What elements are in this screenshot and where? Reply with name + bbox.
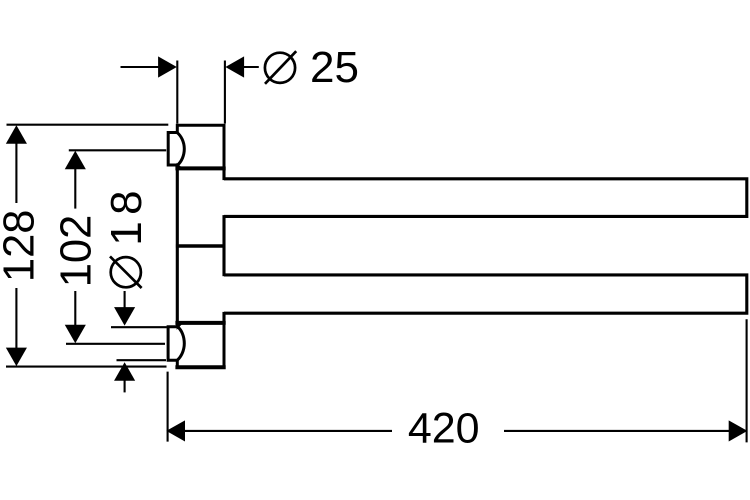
svg-text:8: 8 (102, 190, 151, 214)
dimension 102: top extension line (69, 149, 166, 151)
lower towel bar (224, 275, 747, 313)
bottom cap notch (177, 322, 184, 330)
bottom cap (wall rosette, side view) (168, 327, 184, 361)
dimension Ø25: left arrow (121, 56, 177, 77)
dimension Ø25: label diameter symbol (265, 51, 296, 84)
dimension Ø18: bottom extension line (117, 359, 167, 361)
dimension 420: left extension line (167, 372, 169, 442)
dimension 420: right arrow (504, 420, 747, 441)
svg-text:420: 420 (408, 405, 480, 453)
dimension Ø25: right arrow (225, 56, 258, 77)
dimension 128: top extension line (7, 124, 169, 126)
svg-text:128: 128 (0, 210, 43, 283)
svg-text:102: 102 (52, 215, 100, 288)
top cap (wall rosette, side view) (168, 133, 184, 166)
dimension Ø25: right extension line (224, 61, 226, 124)
svg-text:1: 1 (102, 221, 151, 245)
top cap notch (177, 163, 184, 170)
dimension 128: bottom extension line (6, 366, 167, 368)
dimension 128: top arrow (6, 125, 27, 203)
dimension 102: bottom arrow (65, 291, 86, 343)
dimension Ø18: upper arrow (points down) (114, 291, 135, 326)
upper towel bar (224, 179, 747, 217)
dimension Ø18: top extension line (111, 326, 167, 328)
dimension 102: bottom extension line (66, 343, 165, 345)
dimension 420: right extension line (746, 319, 748, 442)
dimension 102: top arrow (65, 151, 86, 209)
svg-text:25: 25 (310, 43, 359, 92)
dimension Ø18: label diameter symbol (110, 256, 142, 288)
dimension 128: bottom arrow (6, 288, 27, 366)
bottom pivot cylinder (175, 323, 225, 367)
wall post between pivots (177, 167, 224, 324)
dimension Ø25: left extension line (176, 61, 178, 124)
dimension Ø18: lower arrow (points up) (114, 362, 135, 392)
dimension 420: left arrow (166, 420, 392, 441)
top pivot cylinder (Ø25) (175, 125, 225, 168)
post joint line (176, 244, 226, 247)
